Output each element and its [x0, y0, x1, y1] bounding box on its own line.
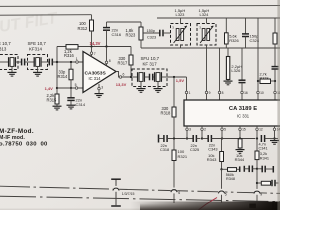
wire IC pin 8 column	[219, 48, 221, 100]
terminal bar node row	[158, 135, 160, 143]
svg-text:R328: R328	[260, 76, 269, 80]
svg-text:C325: C325	[190, 148, 199, 152]
svg-text:R318: R318	[161, 111, 172, 116]
coupling capacitor	[21, 59, 23, 66]
svg-text:o.78750 030 00: o.78750 030 00	[0, 141, 48, 147]
svg-text:R321: R321	[178, 154, 188, 159]
IC U2 CA 3189 E IC 331	[184, 100, 283, 126]
coil L326 2,2uH	[227, 48, 229, 57]
resistor R341 3,2k	[256, 139, 258, 152]
coil L323 1,5uH tuned box	[171, 24, 191, 46]
svg-text:22n: 22n	[191, 144, 197, 148]
svg-text:R323: R323	[126, 33, 137, 38]
wire + capacitor IC pin 16 column	[241, 48, 243, 80]
screen boundary line B	[0, 196, 280, 201]
svg-text:13,3V: 13,3V	[116, 82, 127, 87]
resistor y183 line right	[257, 182, 261, 184]
ground KF317 A	[140, 82, 142, 88]
svg-text:KF 317: KF 317	[143, 61, 158, 66]
wire bottom right vertical	[272, 201, 274, 210]
feedthrough 9	[254, 189, 261, 196]
svg-text:IC 331: IC 331	[237, 114, 250, 119]
svg-text:1: 1	[76, 57, 78, 61]
svg-text:R312: R312	[78, 26, 89, 31]
wire + capacitor right pin column	[274, 48, 276, 66]
photo vignette bottom	[140, 203, 280, 210]
filter KF313 resonator	[0, 61, 9, 63]
svg-text:10: 10	[260, 91, 264, 95]
svg-text:9: 9	[209, 91, 211, 95]
resistor R321 100	[173, 139, 175, 151]
IC bottom pin 5	[221, 126, 223, 139]
IC bottom pin 12	[256, 126, 258, 139]
resistor R328 2,7k	[260, 79, 271, 84]
capacitor C324 150p	[245, 18, 247, 34]
svg-text:2: 2	[204, 128, 206, 132]
resistor R344 10k	[238, 139, 242, 148]
svg-text:R326: R326	[229, 38, 239, 43]
svg-text:3: 3	[101, 86, 103, 90]
pin 6 output wire	[116, 72, 132, 78]
IC top pin 9	[205, 91, 208, 94]
svg-text:R316: R316	[64, 53, 75, 58]
svg-text:C318: C318	[160, 148, 169, 152]
svg-text:1: 1	[189, 91, 191, 95]
svg-text:C316: C316	[112, 32, 122, 37]
ground KF314	[37, 67, 39, 72]
capacitor C318 22n	[159, 138, 164, 140]
svg-text:R315: R315	[47, 97, 58, 102]
pin 7 supply	[91, 47, 93, 58]
ceramic filter KF314 SFE 10,7 box	[28, 55, 48, 70]
svg-text:15: 15	[242, 128, 246, 132]
svg-text:L324: L324	[200, 12, 210, 17]
svg-text:R341: R341	[260, 156, 269, 160]
svg-text:C314: C314	[76, 102, 86, 107]
capacitor C346 right	[257, 168, 262, 170]
svg-text:7: 7	[94, 52, 96, 56]
svg-text:C343: C343	[208, 147, 217, 151]
svg-text:12: 12	[259, 128, 263, 132]
feedthrough 6	[171, 188, 178, 195]
supply rail y18 top-right	[157, 17, 280, 19]
wire IC pin 9 column	[206, 48, 208, 100]
resistor R315 2,2k	[55, 94, 59, 104]
resistor R312 100	[91, 15, 93, 20]
wire bias branch	[56, 47, 58, 95]
svg-text:SFU 10,7: SFU 10,7	[141, 56, 160, 61]
filter KF314 resonator	[25, 61, 35, 63]
IC top pin 10	[257, 91, 260, 94]
IC top pin 11	[274, 91, 277, 94]
svg-text:1,5V: 1,5V	[176, 78, 185, 83]
svg-text:SFE 10,7: SFE 10,7	[28, 41, 47, 46]
filter KF317 resonator B	[154, 72, 156, 82]
op-amp U1 CA3053S IC314	[83, 52, 116, 93]
svg-text:5: 5	[75, 83, 77, 87]
svg-text:150p: 150p	[147, 29, 156, 33]
coil L324 1,5uH tuned box	[197, 24, 216, 46]
wire input to op-amp	[52, 61, 83, 63]
IC top pin 1	[185, 91, 188, 94]
IC top pin 8	[218, 91, 221, 94]
feedthrough 5	[218, 189, 225, 196]
IC bottom pin 14	[274, 126, 276, 139]
wire filter output node 1,5V	[167, 76, 187, 78]
svg-text:R317: R317	[118, 61, 129, 66]
svg-text:6: 6	[123, 73, 125, 77]
svg-text:3: 3	[189, 128, 191, 132]
photo vignette right edge	[277, 0, 280, 210]
wire hop feedthrough 9 column	[256, 169, 258, 190]
capacitor C314 22n	[70, 88, 72, 97]
svg-text:R348: R348	[226, 177, 235, 181]
IC bottom pin 3	[186, 126, 188, 139]
filter KF317 series capacitor	[144, 76, 149, 78]
wire to IC pin 1	[186, 77, 188, 100]
IC top pin 16	[241, 91, 244, 94]
svg-text:5: 5	[224, 128, 226, 132]
svg-text:22n: 22n	[161, 144, 167, 148]
ground pin 14 node	[274, 139, 276, 141]
screen boundary line A	[0, 186, 280, 193]
svg-text:9: 9	[260, 193, 262, 197]
svg-text:1,4V: 1,4V	[45, 86, 54, 91]
resistor R316 1,2k	[66, 45, 78, 50]
sheet border top	[0, 5, 280, 8]
svg-text:C323: C323	[147, 36, 156, 40]
svg-text:5: 5	[225, 192, 227, 196]
svg-text:R344: R344	[235, 157, 245, 162]
svg-text:R343: R343	[207, 157, 217, 162]
svg-text:IC 314: IC 314	[89, 76, 102, 81]
ground R315	[53, 105, 62, 107]
ground KF313	[11, 67, 13, 72]
solder pad bottom right	[249, 204, 256, 209]
svg-text:E 10,7: E 10,7	[0, 41, 11, 46]
resistor R318 330	[173, 77, 175, 107]
shield feedthrough 1/3/7/15	[115, 179, 117, 206]
IC bottom pin 2	[201, 126, 203, 139]
resistor R326 5,6k	[225, 18, 227, 33]
rail y48 right section	[141, 47, 280, 49]
wire IC pin 10 column	[257, 18, 259, 100]
pin 1 input	[76, 61, 79, 64]
svg-text:L323: L323	[176, 12, 186, 17]
supply rail top-left	[0, 14, 92, 17]
red wire to feedthrough 5	[199, 198, 218, 210]
resistor R323 1,8k	[140, 22, 142, 27]
coupling capacitor	[48, 59, 50, 66]
junction R318 node	[173, 137, 175, 139]
ceramic filter KF313 box	[0, 55, 18, 70]
capacitor C346 line y168.5	[243, 166, 245, 172]
svg-text:8: 8	[222, 91, 224, 95]
svg-text:R314: R314	[58, 74, 69, 79]
resistor R317 330	[130, 47, 132, 56]
svg-text:C341: C341	[259, 146, 268, 150]
svg-text:L326: L326	[231, 68, 241, 73]
svg-text:313: 313	[0, 47, 7, 52]
resistor R348 560k	[220, 168, 222, 170]
resistor right column	[274, 18, 276, 33]
svg-text:CA 3189 E: CA 3189 E	[229, 106, 257, 112]
resistor R343 10k	[221, 139, 223, 152]
ceramic filter KF317 SFU 10,7 box	[132, 69, 167, 87]
capacitor C323 150p	[143, 32, 160, 34]
rail 14,3V	[57, 46, 131, 48]
resistor R314 33p	[70, 62, 72, 69]
filter KF317 resonator A	[132, 76, 138, 78]
svg-text:14,3V: 14,3V	[90, 41, 101, 46]
capacitor C325 22n	[192, 135, 194, 142]
svg-text:1/3/7/15: 1/3/7/15	[122, 192, 135, 196]
ground KF317 B	[157, 82, 159, 88]
wire y22 C316-to-R323	[107, 21, 142, 23]
capacitor C341 4,7n	[260, 135, 262, 142]
svg-text:KF314: KF314	[29, 47, 42, 52]
svg-text:6: 6	[178, 191, 180, 195]
capacitor C343 22n	[202, 138, 209, 140]
pin 3 ground	[98, 84, 100, 93]
svg-text:8: 8	[109, 59, 111, 63]
wire inverting input	[57, 87, 83, 89]
svg-text:16: 16	[244, 91, 248, 95]
pin 8 top	[106, 47, 108, 66]
pin 5 input	[75, 87, 78, 90]
svg-text:M-IF mod.: M-IF mod.	[0, 135, 25, 141]
wire hop feedthrough 5	[221, 169, 223, 189]
IC bottom pin 15	[239, 126, 241, 139]
capacitor C316 22n	[106, 22, 108, 27]
